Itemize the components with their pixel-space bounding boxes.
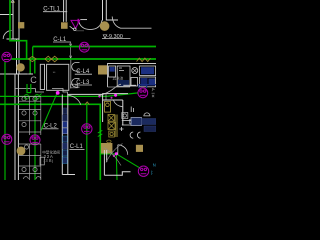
junction dot J5 bbox=[113, 155, 115, 157]
office chairs bbox=[22, 97, 41, 179]
label C-L4 bbox=[75, 69, 92, 75]
kitchen white leader spline bbox=[98, 84, 121, 96]
office desk grid bbox=[18, 97, 40, 181]
armchair shadow rect bbox=[71, 84, 78, 88]
cyan text fragments right edge bbox=[151, 88, 156, 175]
corridor wall pair vertical bbox=[62, 94, 68, 174]
urinal bbox=[122, 113, 128, 119]
fixture bowtie B2 on L2 bbox=[45, 56, 58, 62]
office west wall pair bbox=[15, 74, 18, 180]
basin tan rect bbox=[101, 143, 113, 154]
wire jog L1-L2 bbox=[32, 47, 34, 59]
double door arcs bbox=[79, 20, 103, 29]
sink dome bbox=[144, 113, 150, 116]
dimension tick top-left bbox=[10, 1, 15, 3]
olive X-box 1 bbox=[108, 115, 115, 122]
fixture zigzag B4 on L3 bbox=[85, 102, 89, 105]
wall y74 horizontal bbox=[0, 73, 33, 75]
door sill line bbox=[76, 30, 84, 32]
label C-L3 bbox=[75, 80, 92, 86]
lamp U3 bbox=[2, 134, 12, 144]
camera box with navy bbox=[129, 118, 156, 132]
svg-text:C: C bbox=[30, 75, 37, 85]
window hatches in corridor wall bbox=[63, 108, 68, 164]
junction box S3 kitchen bbox=[98, 65, 107, 74]
kitchen cabinets bbox=[109, 66, 156, 87]
label C-L2 bbox=[43, 124, 59, 130]
armchair right 1 bbox=[72, 63, 80, 72]
wire corridor W bbox=[0, 93, 138, 97]
kitchen outline bbox=[108, 64, 157, 88]
wire circuit L1 bbox=[33, 46, 156, 48]
white cross mark bbox=[120, 127, 124, 131]
leader arrows from C-L1 to wires bbox=[70, 42, 72, 59]
junction dot J4 bbox=[115, 152, 118, 155]
wire circuit L2 bbox=[11, 58, 156, 60]
wire branch to basin switch bbox=[100, 153, 116, 155]
green chair circles office bbox=[24, 94, 41, 100]
junction box S2 bbox=[18, 22, 24, 28]
fixture zigzag B3 on L2 right bbox=[137, 58, 151, 61]
wall corner right of triangle bbox=[80, 19, 87, 21]
leader spline top-right bbox=[112, 17, 151, 29]
svg-text:-9.300: -9.300 bbox=[107, 34, 123, 40]
big desk room rects bbox=[40, 64, 69, 90]
armchair right 2 bbox=[72, 79, 80, 88]
bath tan square bbox=[136, 145, 143, 152]
lamp U5 bbox=[82, 124, 92, 134]
tan circle C3 bbox=[17, 147, 26, 156]
tan circle C2 bbox=[16, 63, 24, 71]
bath candle ticks bbox=[131, 107, 133, 113]
olive mark above basin bbox=[107, 140, 111, 143]
junction box S1 bbox=[61, 22, 68, 29]
tan circle C1 bbox=[100, 21, 110, 31]
wall jog y88.6 bbox=[15, 89, 44, 92]
crossing arcs near junction J4 bbox=[104, 144, 123, 166]
svg-text:具洗池: 具洗池 bbox=[113, 75, 124, 80]
magenta tick on wire at wall bbox=[111, 97, 113, 99]
wall y20 right bbox=[106, 19, 118, 21]
wire circuit L3 bbox=[0, 104, 100, 180]
label C-L1 (bottom) bbox=[69, 144, 84, 150]
small rect left of text bbox=[40, 157, 44, 165]
door leaf + arc bottom bbox=[118, 145, 128, 155]
olive X-box 2 bbox=[108, 122, 115, 129]
desk room right wall bbox=[70, 60, 72, 89]
svg-text:N: N bbox=[153, 163, 156, 168]
magenta tick near door bbox=[78, 19, 80, 23]
svg-text:(∶: (∶ bbox=[151, 170, 153, 175]
wall below kitchen / bath top bbox=[102, 93, 128, 95]
wall right vertical pair top bbox=[103, 0, 107, 21]
door arc top-left bbox=[3, 31, 11, 39]
wire drop pair below L2 bbox=[30, 59, 35, 74]
lamp U7 bottom-right bbox=[138, 166, 148, 176]
svg-text:(３Ｂ): (３Ｂ) bbox=[44, 159, 54, 163]
wall bottom corridor bbox=[62, 174, 75, 176]
corridor door arc bbox=[68, 95, 81, 105]
wall y39 bbox=[7, 38, 20, 40]
wire drop pair office bbox=[27, 84, 32, 93]
toilet door arc bbox=[113, 100, 122, 107]
kitchen navy fills bbox=[110, 67, 156, 86]
olive cabinet with circle bbox=[105, 101, 111, 112]
lamp U1 (wall) bbox=[2, 52, 11, 61]
toilet room walls bbox=[103, 94, 123, 126]
sinks semicircles bbox=[130, 132, 140, 138]
lamp U6 bbox=[138, 88, 148, 98]
wall top-left vertical pair bbox=[13, 0, 19, 74]
lamp U4 bbox=[30, 135, 40, 145]
wire diagonal to lamp bottom-right bbox=[116, 154, 139, 168]
corridor wall + door bbox=[68, 93, 103, 95]
wall stub left y14 bbox=[0, 14, 13, 16]
label C-TL1 bbox=[43, 6, 67, 12]
junction dot J2 bbox=[114, 94, 117, 97]
navy corner near lamp U6 bbox=[139, 85, 156, 88]
washer counter lines bbox=[122, 120, 131, 125]
olive riser pair bbox=[116, 115, 117, 138]
wire vertical through lamp U5 bbox=[86, 104, 88, 180]
wire mid drop bbox=[34, 96, 36, 180]
bath room walls bottom bbox=[104, 150, 130, 175]
elevation mark -9.300 bbox=[102, 34, 131, 40]
wire diagonal to C-L2 bbox=[41, 93, 57, 131]
lamp triangle T1 bbox=[70, 20, 80, 30]
tiny text block lab room bbox=[42, 150, 60, 164]
wire V1 riser bbox=[10, 0, 27, 59]
wall top-mid vertical pair bbox=[64, 0, 67, 22]
lamp U2 on L1 bbox=[79, 42, 89, 52]
junction dot J1 bbox=[56, 91, 60, 95]
label C-L1 (top) bbox=[53, 37, 71, 43]
wire stub below junction bbox=[115, 154, 118, 180]
fixture bowtie B1 on L2 bbox=[29, 56, 37, 61]
wire left drop bbox=[4, 62, 6, 181]
junction dot J3 bbox=[98, 95, 100, 97]
olive box 3 bbox=[109, 131, 115, 137]
wall jog 2 bbox=[52, 89, 68, 95]
room label C bbox=[27, 73, 37, 85]
wire count ticks bbox=[98, 130, 103, 136]
